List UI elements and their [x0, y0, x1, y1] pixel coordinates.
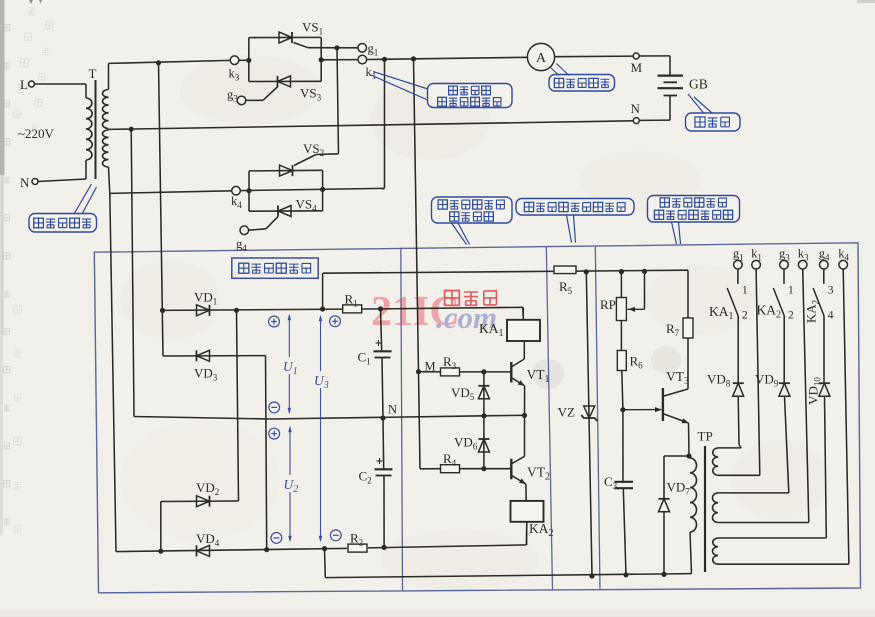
- svg-text:T: T: [89, 66, 97, 81]
- svg-text:N: N: [388, 403, 397, 417]
- svg-text:GB: GB: [689, 77, 708, 92]
- svg-text:RP: RP: [600, 297, 616, 312]
- svg-text:N: N: [20, 175, 30, 190]
- svg-text:M: M: [631, 60, 643, 75]
- svg-text:A: A: [536, 51, 547, 66]
- svg-text:L: L: [20, 77, 28, 92]
- svg-text:N: N: [631, 101, 641, 116]
- svg-text:3: 3: [828, 285, 834, 297]
- svg-text:2: 2: [742, 310, 748, 322]
- svg-text:TP: TP: [698, 429, 713, 444]
- svg-text:4: 4: [828, 310, 834, 322]
- svg-text:~220V: ~220V: [18, 126, 55, 141]
- svg-text:1: 1: [742, 285, 748, 297]
- svg-text:VZ: VZ: [558, 405, 575, 420]
- svg-text:1: 1: [788, 285, 794, 297]
- svg-text:2: 2: [788, 310, 794, 322]
